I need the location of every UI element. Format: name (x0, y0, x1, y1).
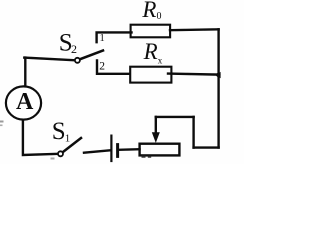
svg-text:1: 1 (100, 33, 105, 44)
svg-text:x: x (158, 56, 163, 66)
junction node dot (215, 72, 220, 78)
resistor Rx box (130, 67, 171, 83)
wire top horizontal to S2 (24, 58, 74, 61)
wire ammeter to bottom corner (23, 120, 58, 155)
battery short plate (116, 145, 119, 157)
svg-text:R: R (143, 39, 158, 64)
right rail vertical wire (217, 29, 219, 147)
wire R0 to right rail (170, 28, 219, 31)
svg-text:2: 2 (71, 42, 77, 56)
svg-text:0: 0 (157, 11, 162, 22)
rheostat wiper stem (155, 117, 157, 134)
wiper arrowhead (152, 132, 160, 143)
switch S1 lever (63, 138, 81, 152)
wire top-left vertical (ammeter to top corner) (24, 58, 26, 87)
scan smudge left edge (0, 121, 4, 123)
switch S2 pivot (75, 58, 80, 63)
wiper top horizontal wire (156, 116, 194, 118)
svg-text:1: 1 (65, 133, 71, 145)
wire battery to rheostat (119, 148, 140, 151)
ammeter A circle (6, 86, 41, 119)
wire S1 to battery (84, 150, 110, 152)
resistor R0 box (131, 25, 171, 38)
svg-text:A: A (16, 89, 34, 115)
contact 2 bracket (97, 60, 130, 73)
switch S2 lever (80, 51, 103, 60)
wiper branch vertical wire (192, 117, 194, 148)
wire Rx to right rail (168, 74, 219, 75)
rheostat box (140, 144, 180, 156)
svg-text:S: S (52, 118, 66, 145)
svg-text:R: R (141, 0, 156, 22)
svg-text:2: 2 (99, 60, 105, 72)
contact 1 bracket (97, 32, 132, 42)
battery long plate (110, 136, 112, 161)
wiper branch bottom wire to rail (194, 146, 219, 148)
scan noise under rheostat (142, 156, 152, 158)
switch S1 pivot (58, 151, 63, 156)
